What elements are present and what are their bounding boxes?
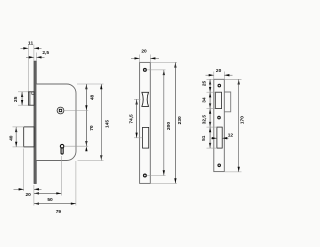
svg-text:74,5: 74,5 <box>128 114 134 124</box>
svg-text:70: 70 <box>89 125 95 131</box>
svg-text:12: 12 <box>228 133 234 139</box>
svg-text:200: 200 <box>166 122 172 130</box>
svg-text:20: 20 <box>26 192 32 198</box>
svg-text:32,5: 32,5 <box>202 115 208 125</box>
svg-text:25: 25 <box>13 96 19 102</box>
svg-text:20: 20 <box>141 49 147 55</box>
svg-text:170: 170 <box>239 116 245 124</box>
svg-text:50: 50 <box>47 197 53 203</box>
svg-text:145: 145 <box>104 120 110 128</box>
svg-text:79: 79 <box>56 209 62 215</box>
svg-text:2,5: 2,5 <box>42 50 49 56</box>
svg-text:25: 25 <box>202 81 208 87</box>
svg-text:40: 40 <box>8 135 14 141</box>
svg-text:20: 20 <box>216 68 222 74</box>
svg-text:48: 48 <box>89 95 95 101</box>
svg-text:230: 230 <box>177 116 183 124</box>
svg-text:11: 11 <box>28 40 33 46</box>
svg-text:34: 34 <box>201 97 207 103</box>
svg-text:51: 51 <box>201 135 207 141</box>
